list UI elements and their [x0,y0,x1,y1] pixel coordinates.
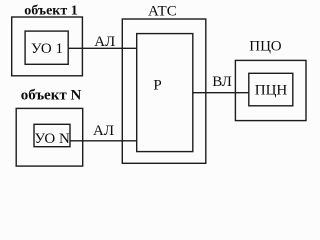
svg-text:Р: Р [153,78,161,94]
block object1 outer box [12,17,83,76]
svg-text:ВЛ: ВЛ [212,74,232,90]
block ПЦО outer box [235,60,306,120]
wire АЛ bottom (УОN to Р) [70,140,137,142]
block УО 1 inner box [25,31,68,64]
svg-text:ПЦН: ПЦН [255,83,288,99]
block АТС outer box [122,19,206,163]
svg-text:АТС: АТС [148,4,177,20]
svg-text:АЛ: АЛ [93,123,114,139]
svg-text:АЛ: АЛ [94,34,115,50]
svg-text:ПЦО: ПЦО [249,39,281,55]
block ПЦН inner box [249,73,293,106]
svg-text:объект N: объект N [21,88,82,104]
wire ВЛ (Р to ПЦН) [193,92,249,94]
wire АЛ top (УО1 to Р) [68,47,137,49]
block objectN outer box [16,108,83,166]
svg-text:объект 1: объект 1 [24,4,77,19]
svg-text:УО N: УО N [35,131,70,147]
svg-text:УО 1: УО 1 [31,41,63,57]
block Р inner box [137,34,193,152]
block УО N inner box [34,124,70,146]
